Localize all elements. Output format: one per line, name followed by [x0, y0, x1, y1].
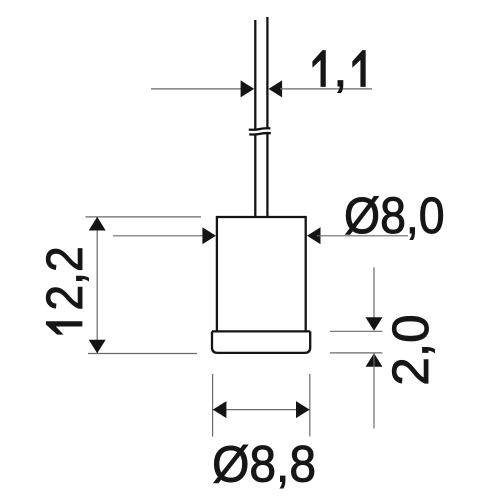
dimension Ø8,8 : left arrow	[213, 401, 227, 418]
svg-text:2,2: 2,2	[37, 246, 94, 310]
dimension 2,0 : lower arrow	[366, 353, 383, 367]
dimension 12,2 : top extension line	[86, 216, 202, 218]
dimension 2,0 : lower vertical dimension line	[373, 354, 375, 428]
dimension 1,1 : right arrow	[269, 80, 283, 97]
dimension Ø8,0 : right dimension line	[317, 235, 408, 237]
dimension 1,1 : left dimension line	[151, 88, 243, 90]
dimension 2,0 : lower extension line	[330, 352, 382, 354]
svg-text:,: ,	[333, 40, 347, 97]
dimension 1,1 : right dimension line	[280, 88, 372, 90]
dimension 1,1 : second digit	[353, 51, 365, 87]
dimension Ø8,0 : left arrow	[202, 227, 216, 244]
dimension 12,2 : value label	[46, 322, 82, 334]
dimension 12,2 : top arrow	[89, 217, 106, 231]
cable break symbol	[249, 128, 271, 134]
svg-text:2,0: 2,0	[382, 314, 439, 385]
dimension 12,2 : bottom arrow	[89, 340, 106, 354]
dimension Ø8,8 : right extension line	[309, 374, 311, 437]
svg-text:Ø8,8: Ø8,8	[212, 436, 316, 493]
dimension 12,2 : vertical dimension line	[96, 217, 98, 353]
wire: cable left edge	[254, 20, 256, 216]
dimension Ø8,8 : right arrow	[296, 401, 310, 418]
dimension 1,1 : value label	[313, 51, 325, 87]
dimension Ø8,8 : dimension line	[213, 409, 310, 411]
dimension Ø8,0 : left dimension line	[113, 235, 213, 237]
dimension 1,1 : left arrow	[241, 80, 255, 97]
wire: cable right edge	[266, 17, 268, 216]
svg-text:Ø8,0: Ø8,0	[344, 188, 445, 244]
nipple body outline	[217, 217, 306, 332]
dimension 2,0 : upper extension line	[330, 330, 382, 332]
dimension 2,0 : upper arrow	[366, 317, 383, 331]
dimension Ø8,8 : left extension line	[212, 374, 214, 437]
dimension 2,0 : upper vertical dimension line	[373, 267, 375, 330]
dimension Ø8,0 : right arrow	[307, 227, 321, 244]
nipple flange outline	[212, 331, 310, 353]
dimension 12,2 : bottom extension line	[88, 353, 197, 355]
